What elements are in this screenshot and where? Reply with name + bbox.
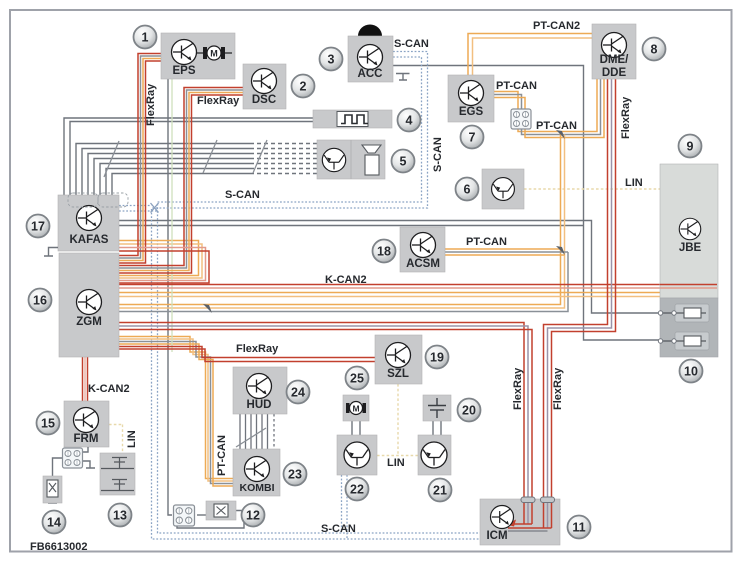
wire PT-CAN2 DME to EGS: [468, 34, 592, 76]
ECU KOMBI box: [233, 449, 280, 496]
svg-text:17: 17: [31, 220, 45, 234]
wire FlexRay ZGM to ICM trio: [119, 323, 524, 525]
icon ACC: [358, 45, 383, 70]
icon HUD: [247, 374, 272, 399]
wire K-CAN2 orange pair ZGM to JBE: [119, 292, 661, 294]
wire PT-CAN EGS to connector and junction: [494, 79, 597, 132]
svg-text:14: 14: [47, 516, 61, 530]
bracket ACC bottom: [396, 74, 410, 81]
wire K-CAN2 red pair ZGM through JBE: [119, 284, 717, 286]
wire S-CAN outer loop ACC-right-down-left-down-ICM: [152, 52, 481, 540]
ECU DME/DDE box: [592, 24, 636, 79]
svg-text:10: 10: [684, 365, 698, 379]
mech link box25-box22: [352, 421, 441, 435]
svg-text:FlexRay: FlexRay: [512, 367, 524, 410]
ECU EPS box: [161, 33, 235, 79]
ECU JBE box: [660, 164, 718, 298]
icon DSC: [252, 69, 277, 94]
svg-text:ZGM: ZGM: [76, 316, 102, 328]
mech link box20-box21: [432, 421, 434, 435]
wire S-CAN stub KAFAS: [119, 205, 152, 207]
wire PT-CAN ZGM step down to KOMBI: [119, 337, 233, 479]
svg-text:24: 24: [291, 386, 305, 400]
svg-text:LIN: LIN: [387, 457, 405, 469]
svg-text:DDE: DDE: [602, 67, 627, 79]
wire KAFAS camera line 1 to box 4: [64, 118, 313, 195]
wire PT-CAN ACSM branch: [445, 248, 561, 250]
svg-text:1: 1: [142, 31, 149, 45]
component box 4 steering sensor: [313, 110, 392, 128]
icon JBE: [679, 218, 701, 240]
node badge 20: [458, 399, 481, 422]
svg-text:SZL: SZL: [387, 368, 409, 380]
HUD to KOMBI display lines: [236, 414, 274, 449]
node badge 21: [429, 479, 452, 502]
icon ICM: [491, 506, 514, 529]
ECU SZL box: [375, 335, 422, 384]
svg-text:LIN: LIN: [126, 430, 138, 448]
svg-text:15: 15: [41, 417, 55, 431]
node badge 3: [320, 48, 343, 71]
node badge 25: [346, 367, 369, 390]
svg-text:PT-CAN: PT-CAN: [216, 435, 228, 476]
svg-text:PT-CAN: PT-CAN: [466, 236, 507, 248]
svg-text:K-CAN2: K-CAN2: [88, 383, 130, 395]
svg-text:PT-CAN2: PT-CAN2: [533, 20, 580, 32]
capacitor C20 in box 20: [428, 398, 446, 418]
wire KAFAS camera line 2 to box 4: [70, 122, 313, 196]
node S-CAN junction marks: [151, 203, 159, 213]
connector X3 at item 12: [174, 505, 195, 526]
node badge 4: [398, 109, 421, 132]
wire FlexRay DSC bundle to ZGM: [119, 88, 243, 266]
svg-text:FlexRay: FlexRay: [236, 343, 279, 355]
svg-text:2: 2: [300, 80, 307, 94]
node badge 18: [373, 240, 396, 263]
svg-text:11: 11: [572, 521, 585, 535]
wire KAFAS second line: [119, 225, 584, 227]
wire KAFAS lines to box 5: [76, 144, 250, 196]
svg-text:HUD: HUD: [247, 399, 272, 411]
transistor Q5 in box 5: [322, 148, 345, 171]
icon KAFAS: [77, 206, 102, 231]
ECU ACC radar dome: [358, 25, 382, 37]
node badge 5: [392, 150, 415, 173]
wire LIN FRM to box13: [109, 425, 123, 453]
node badge 13: [109, 504, 132, 527]
node badge 1: [134, 26, 157, 49]
node badge 23: [284, 463, 307, 486]
wire ACC to fuse 2: [393, 66, 672, 341]
svg-text:DME/: DME/: [600, 54, 630, 66]
ECU KAFAS box: [58, 195, 119, 251]
svg-text:M: M: [352, 404, 359, 414]
fuse F2 in JBE: [675, 332, 709, 350]
component name labels: [70, 54, 702, 542]
connector X2 below FRM: [63, 448, 83, 468]
icon DME: [602, 33, 627, 58]
fuse F1 in JBE: [675, 304, 709, 322]
node badge 16: [29, 289, 52, 312]
node junction arrow PT-CAN at ACSM branch: [556, 246, 565, 255]
lamp symbol in box 5: [362, 145, 381, 153]
icon KOMBI: [245, 457, 270, 482]
ECU ICM box: [480, 499, 560, 545]
svg-text:PT-CAN: PT-CAN: [496, 80, 537, 92]
transistor Q21 in box 21: [421, 442, 447, 468]
node badge 6: [456, 178, 479, 201]
svg-text:7: 7: [469, 131, 476, 145]
svg-text:FlexRay: FlexRay: [145, 83, 157, 126]
wire LIN box22 to box21: [377, 455, 418, 457]
wire EPS sensor line down to connector 12: [168, 79, 172, 515]
ECU DSC box: [243, 64, 286, 109]
node junction arrow at ZGM PT-CAN crossing: [203, 304, 212, 313]
bulb X-box 12: [206, 501, 236, 520]
node badge 14: [43, 511, 66, 534]
wire pale green EPS line: [171, 79, 173, 352]
svg-text:FB6613002: FB6613002: [30, 541, 88, 553]
wire K-CAN2 red pair crossing JBE: [660, 285, 717, 289]
wires FRM to connector and bulb 14: [44, 74, 410, 529]
wire S-CAN inner loop: [158, 57, 481, 533]
wire KAFAS to fuse 1: [119, 221, 672, 314]
bracket KAFAS left: [44, 248, 58, 257]
component box 5 camera unit: [317, 140, 385, 179]
node badge 11: [568, 516, 591, 539]
svg-text:18: 18: [377, 245, 391, 259]
svg-text:FlexRay: FlexRay: [197, 95, 240, 107]
connector X1 near EGS: [511, 109, 531, 129]
JBE fuse carrier box: [660, 298, 718, 357]
wire FlexRay ZGM to SZL: [119, 347, 375, 358]
slash marks on KAFAS harness: [104, 140, 267, 177]
transistor Q6 in box 6: [492, 178, 515, 201]
heater symbols in box 13: [101, 458, 134, 491]
ECU HUD box: [233, 367, 287, 414]
ECU ZGM box: [59, 253, 119, 357]
svg-text:S-CAN: S-CAN: [432, 137, 444, 172]
svg-text:LIN: LIN: [625, 177, 643, 189]
node badge 15: [37, 412, 60, 435]
node junction arrow PT-CAN at EGS branch: [556, 130, 565, 139]
svg-text:ACSM: ACSM: [406, 258, 440, 270]
node badge 9: [679, 135, 702, 158]
svg-text:EGS: EGS: [459, 106, 484, 118]
icon EPS: [172, 40, 197, 65]
node badge 7: [461, 126, 484, 149]
node badge 12: [242, 504, 265, 527]
node badge 10: [680, 360, 703, 383]
wire LIN box6 to JBE: [524, 188, 660, 190]
svg-text:KAFAS: KAFAS: [70, 234, 109, 246]
component box 13: [100, 453, 135, 495]
svg-text:S-CAN: S-CAN: [321, 523, 356, 535]
dashed antenna pills on KAFAS: [68, 193, 98, 207]
ECU ACSM box: [400, 227, 445, 272]
svg-text:S-CAN: S-CAN: [225, 189, 260, 201]
component box 6 sensor: [482, 169, 524, 209]
wire FlexRay inside ICM: [524, 499, 532, 524]
svg-text:20: 20: [462, 404, 476, 418]
svg-text:21: 21: [433, 484, 447, 498]
wire PT-CAN vertical drop to ZGM: [119, 132, 561, 305]
svg-text:KOMBI: KOMBI: [240, 482, 275, 494]
svg-text:25: 25: [350, 372, 364, 386]
icon SZL: [386, 343, 411, 368]
wire FlexRay DME/DDE down to ICM: [544, 79, 608, 524]
svg-text:PT-CAN: PT-CAN: [536, 120, 577, 132]
node badge 22: [346, 478, 369, 501]
square wave symbol in box 4: [337, 112, 368, 127]
svg-text:8: 8: [651, 43, 658, 57]
svg-text:FlexRay: FlexRay: [552, 367, 564, 410]
ECU ACC box: [348, 36, 393, 82]
transistor Q22 in box 22: [344, 442, 370, 468]
svg-text:S-CAN: S-CAN: [394, 38, 429, 50]
component box 25 motor: [343, 395, 369, 421]
svg-text:19: 19: [430, 351, 444, 365]
node arrow inside ICM: [506, 520, 516, 527]
icon FRM: [74, 408, 99, 433]
icon ZGM: [77, 290, 102, 315]
svg-text:6: 6: [464, 183, 471, 197]
wire LIN SZL down: [397, 384, 399, 456]
wire dashed tails into box 5: [250, 144, 317, 174]
motor M1 in EPS: [197, 52, 232, 54]
node badge 24: [287, 381, 310, 404]
svg-text:12: 12: [246, 509, 260, 523]
svg-text:3: 3: [328, 53, 335, 67]
svg-text:JBE: JBE: [679, 242, 702, 254]
wire S-CAN stub box22: [341, 475, 343, 533]
icon ACSM: [411, 233, 436, 258]
svg-text:16: 16: [33, 294, 47, 308]
node badge 8: [643, 38, 666, 61]
wires around connector 12: [197, 514, 206, 516]
wire K-CAN2 ZGM down to FRM: [82, 357, 84, 401]
component box 22: [337, 435, 377, 475]
svg-text:5: 5: [400, 155, 407, 169]
slash mark HUD-KOMBI: [236, 428, 266, 447]
svg-text:FlexRay: FlexRay: [620, 96, 632, 139]
node badge 17: [27, 215, 50, 238]
svg-text:22: 22: [350, 483, 364, 497]
connector nubs on ICM top: [521, 497, 535, 503]
node badge 2: [292, 75, 315, 98]
component box 20 capacitor: [423, 395, 451, 421]
svg-text:DSC: DSC: [252, 94, 276, 106]
svg-text:4: 4: [406, 114, 413, 128]
motor M25 in box 25: [346, 403, 350, 413]
svg-text:9: 9: [687, 140, 694, 154]
wire KAFAS orange pair to ZGM: [119, 241, 199, 276]
svg-text:ACC: ACC: [358, 68, 383, 80]
svg-text:K-CAN2: K-CAN2: [325, 274, 367, 286]
bulb X-box 14: [43, 476, 62, 503]
ECU EGS box: [448, 75, 494, 122]
component box 21: [418, 435, 451, 475]
svg-text:23: 23: [288, 468, 302, 482]
wire FlexRay EPS bundle to ZGM: [119, 54, 161, 256]
svg-text:EPS: EPS: [172, 65, 195, 77]
ECU FRM box: [64, 401, 109, 447]
node badge 19: [426, 346, 449, 369]
svg-text:13: 13: [113, 509, 127, 523]
svg-text:ICM: ICM: [486, 530, 507, 542]
svg-text:FRM: FRM: [74, 433, 99, 445]
svg-text:M: M: [210, 49, 218, 59]
icon EGS: [459, 81, 484, 106]
wire KAFAS red pair to ZGM: [119, 248, 206, 281]
